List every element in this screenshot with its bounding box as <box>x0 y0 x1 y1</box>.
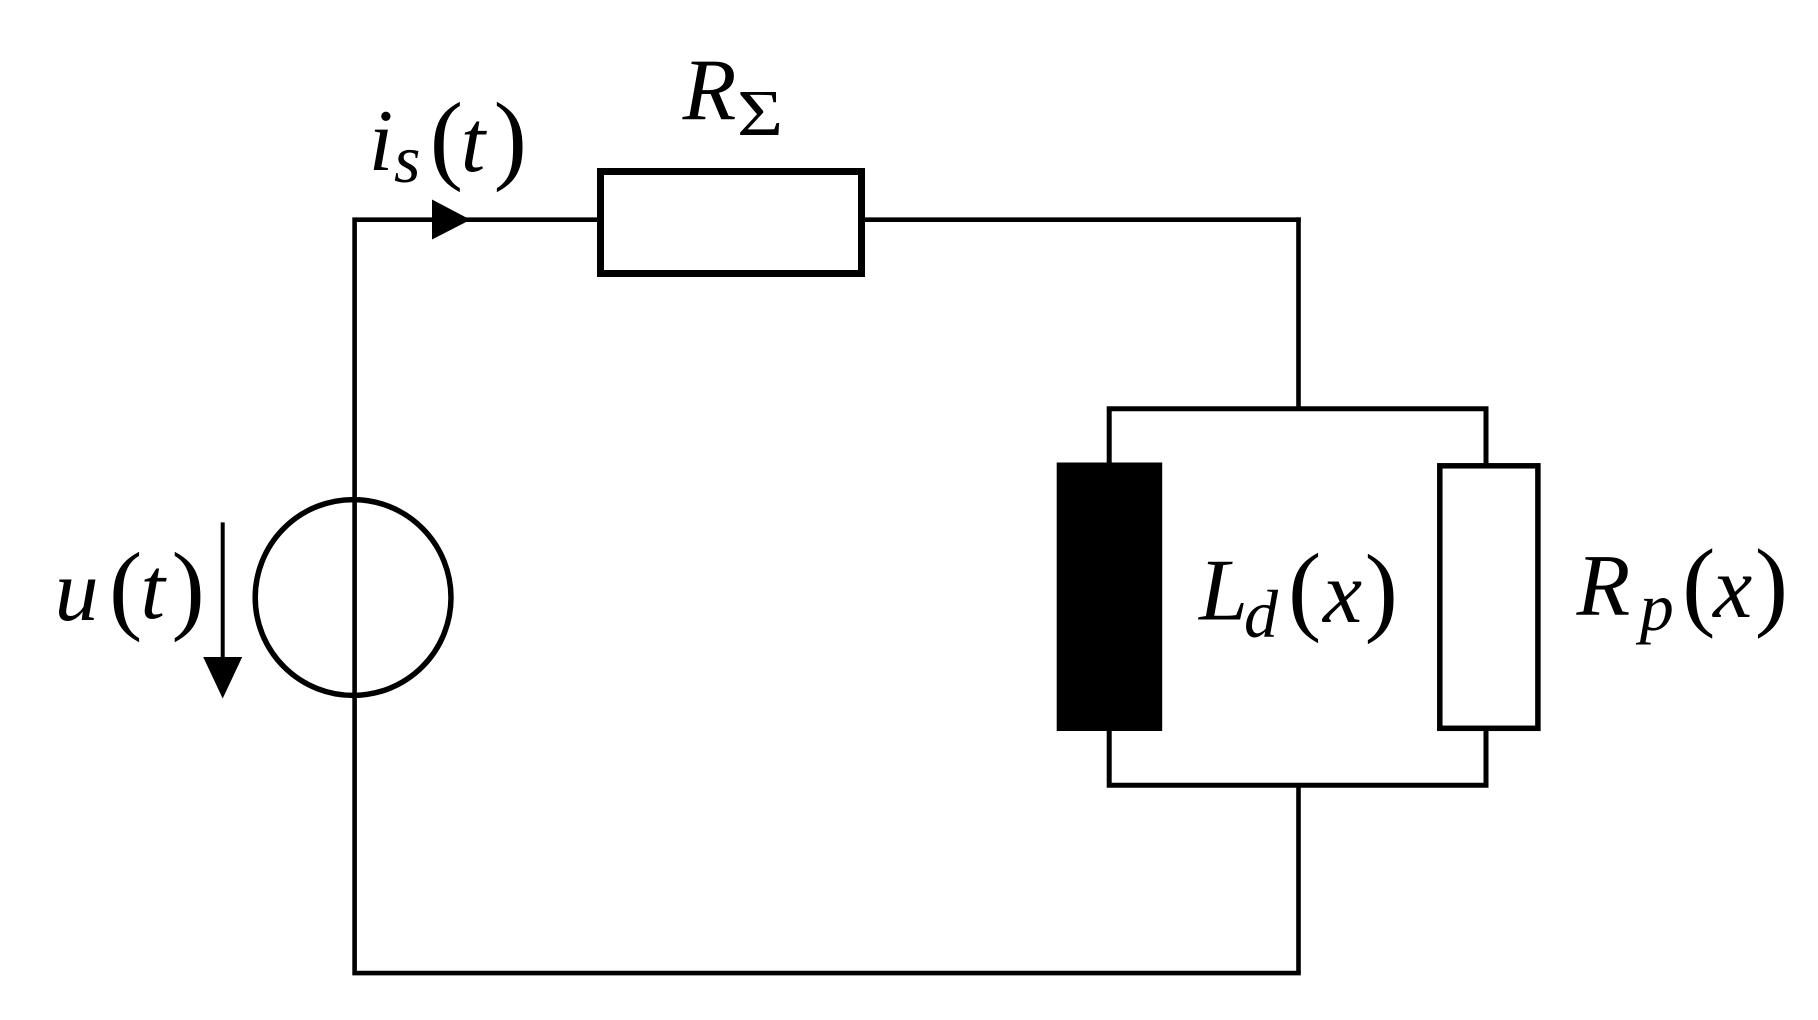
svg-text:R: R <box>1576 538 1631 635</box>
svg-text:i: i <box>369 93 393 190</box>
svg-text:p: p <box>1636 569 1674 645</box>
svg-text:t: t <box>461 94 488 191</box>
svg-text:t: t <box>141 541 168 638</box>
svg-text:): ) <box>494 82 527 193</box>
svg-text:s: s <box>394 121 420 197</box>
inductor L_d body (solid black rectangle) <box>1057 463 1163 732</box>
label u(t) <box>55 532 205 643</box>
svg-text:(: ( <box>1682 528 1715 639</box>
label i_s(t) <box>369 82 527 197</box>
svg-text:): ) <box>172 532 205 643</box>
svg-text:Σ: Σ <box>737 76 783 149</box>
label R_p(x) <box>1576 528 1789 645</box>
wire: right branch vertical from parallel box bottom to bottom wire <box>1296 785 1301 973</box>
svg-text:x: x <box>1321 545 1362 642</box>
arrow: current direction i_s(t) on top wire <box>432 200 471 240</box>
svg-text:): ) <box>1755 528 1788 639</box>
resistor R_Sigma body <box>601 172 862 274</box>
voltage source U circle <box>255 500 451 696</box>
label L_d(x) <box>1197 533 1398 652</box>
wire: top, left vertical and bottom of main loop <box>355 220 1301 973</box>
svg-text:): ) <box>1365 534 1398 645</box>
svg-text:(: ( <box>1288 533 1321 644</box>
svg-text:R: R <box>682 43 737 140</box>
resistor R_p body <box>1440 466 1538 729</box>
svg-text:x: x <box>1711 540 1752 637</box>
arrow: voltage u(t) direction (down, beside source) <box>221 522 225 662</box>
svg-text:u: u <box>55 543 99 640</box>
svg-text:(: ( <box>109 532 142 643</box>
svg-text:d: d <box>1244 576 1279 652</box>
wire: right branch vertical from top wire to parallel box top <box>1296 217 1301 408</box>
svg-text:L: L <box>1197 543 1248 640</box>
svg-text:(: ( <box>430 82 463 193</box>
label R_Sigma <box>682 43 783 150</box>
wire: parallel box rectangle (top, left, right, bottom connecting L_d and R_p) <box>1109 409 1486 786</box>
